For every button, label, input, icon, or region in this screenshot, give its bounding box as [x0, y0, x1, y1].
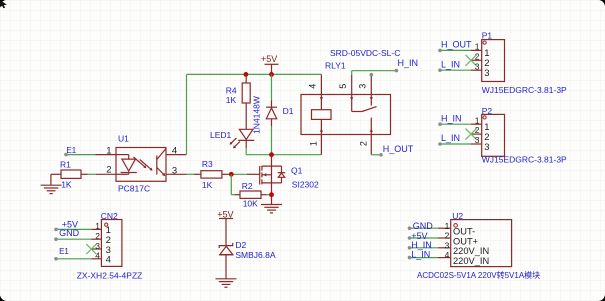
- svg-text:H_IN: H_IN: [411, 240, 432, 250]
- svg-text:2: 2: [106, 164, 111, 175]
- svg-text:RLY1: RLY1: [325, 60, 346, 70]
- svg-text:PC817C: PC817C: [118, 184, 150, 194]
- svg-text:SRD-05VDC-SL-C: SRD-05VDC-SL-C: [330, 48, 400, 58]
- svg-text:1K: 1K: [202, 180, 213, 190]
- svg-text:3: 3: [484, 68, 489, 79]
- svg-text:220V_IN: 220V_IN: [453, 246, 489, 256]
- svg-text:GND: GND: [59, 228, 80, 238]
- svg-text:1: 1: [445, 221, 450, 231]
- svg-text:R4: R4: [226, 86, 237, 96]
- svg-text:R3: R3: [202, 159, 213, 169]
- svg-text:U2: U2: [452, 211, 463, 221]
- svg-text:4: 4: [445, 250, 450, 260]
- svg-text:SI2302: SI2302: [292, 180, 319, 190]
- svg-text:SMBJ6.8A: SMBJ6.8A: [235, 250, 275, 260]
- svg-text:L_IN: L_IN: [411, 250, 430, 260]
- svg-text:P1: P1: [482, 31, 493, 41]
- svg-text:3: 3: [445, 240, 450, 250]
- svg-text:3: 3: [475, 135, 480, 145]
- svg-text:1: 1: [475, 42, 480, 52]
- svg-text:2: 2: [95, 231, 100, 241]
- svg-text:5: 5: [338, 84, 348, 89]
- svg-text:4: 4: [95, 251, 100, 261]
- svg-text:ACDC02S-5V1A 220V转5V1A模块: ACDC02S-5V1A 220V转5V1A模块: [417, 270, 540, 280]
- svg-text:1N4148W: 1N4148W: [252, 96, 262, 134]
- svg-text:L_IN: L_IN: [441, 133, 460, 143]
- svg-text:OUT+: OUT+: [453, 236, 478, 246]
- svg-text:OUT-: OUT-: [453, 227, 475, 237]
- svg-text:H_IN: H_IN: [441, 113, 462, 123]
- svg-text:D2: D2: [235, 240, 246, 250]
- svg-text:WJ15EDGRC-3.81-3P: WJ15EDGRC-3.81-3P: [482, 85, 567, 95]
- svg-text:4: 4: [308, 84, 318, 89]
- svg-text:1K: 1K: [61, 179, 72, 189]
- svg-text:E1: E1: [66, 146, 76, 155]
- svg-text:CN2: CN2: [101, 211, 118, 221]
- svg-text:2: 2: [445, 231, 450, 241]
- svg-text:2: 2: [359, 141, 369, 146]
- svg-text:+5V: +5V: [217, 209, 233, 219]
- svg-text:4: 4: [172, 145, 177, 156]
- svg-text:H_OUT: H_OUT: [441, 39, 472, 49]
- svg-text:220V_IN: 220V_IN: [453, 256, 489, 266]
- svg-text:1: 1: [106, 145, 111, 156]
- svg-text:3: 3: [95, 241, 100, 251]
- svg-text:2: 2: [475, 125, 480, 135]
- svg-text:GND: GND: [413, 221, 434, 231]
- svg-text:3: 3: [484, 142, 489, 153]
- svg-text:1K: 1K: [226, 95, 237, 105]
- svg-text:10K: 10K: [243, 199, 258, 209]
- svg-text:U1: U1: [118, 133, 129, 143]
- svg-text:R2: R2: [242, 181, 253, 191]
- svg-text:2: 2: [475, 51, 480, 61]
- svg-text:D1: D1: [283, 106, 294, 116]
- svg-text:ZX-XH2.54-4PZZ: ZX-XH2.54-4PZZ: [77, 270, 143, 280]
- svg-text:R1: R1: [60, 160, 71, 170]
- svg-text:P2: P2: [482, 106, 493, 116]
- svg-text:3: 3: [358, 84, 368, 89]
- svg-text:3: 3: [475, 61, 480, 71]
- svg-text:4: 4: [106, 255, 111, 266]
- svg-text:H_IN: H_IN: [398, 58, 419, 68]
- svg-text:1: 1: [475, 115, 480, 125]
- svg-text:1: 1: [95, 221, 100, 231]
- svg-text:+5V: +5V: [261, 54, 277, 64]
- svg-text:L_IN: L_IN: [441, 60, 460, 70]
- svg-text:WJ15EDGRC-3.81-3P: WJ15EDGRC-3.81-3P: [482, 154, 567, 164]
- svg-text:H_OUT: H_OUT: [383, 144, 414, 154]
- svg-text:Q1: Q1: [291, 166, 303, 176]
- svg-text:3: 3: [172, 166, 177, 177]
- svg-text:LED1: LED1: [210, 130, 232, 140]
- svg-text:1: 1: [309, 141, 319, 146]
- svg-text:E1: E1: [59, 247, 69, 256]
